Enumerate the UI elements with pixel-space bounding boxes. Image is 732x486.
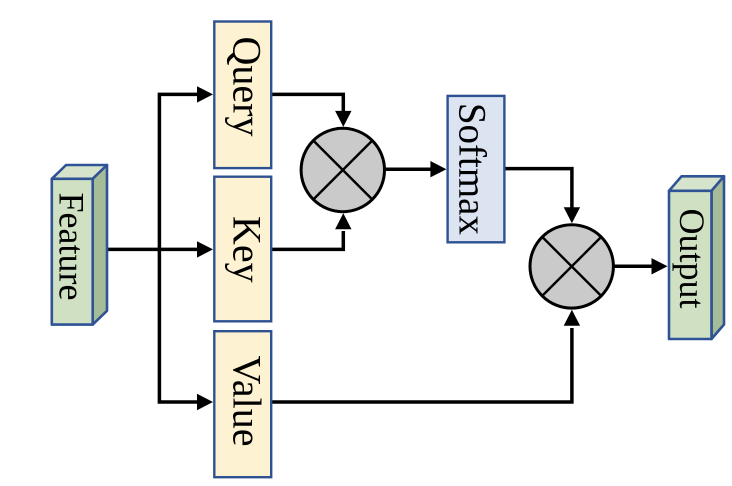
Query box	[214, 22, 271, 169]
multiply node 2	[530, 225, 613, 308]
wire: multiply node 2 to Output	[612, 265, 653, 269]
arrowhead into multiply node 2 top	[564, 207, 580, 223]
arrowhead into Softmax	[430, 161, 446, 177]
wire: multiply node 1 to Softmax	[384, 167, 432, 171]
svg-text:Value: Value	[225, 355, 270, 446]
arrowhead into multiply node 2 bottom	[564, 310, 580, 326]
Softmax box	[448, 96, 505, 242]
arrowhead into Output	[652, 258, 668, 274]
Value box	[214, 331, 271, 477]
Feature 3D box	[52, 165, 107, 325]
arrowhead into Query	[197, 86, 213, 102]
wire: Feature output to Key	[96, 248, 198, 252]
arrowhead into multiply node 1 bottom	[335, 213, 351, 229]
svg-text:Output: Output	[672, 208, 712, 308]
wire: Key output to multiply node 1 bottom	[271, 231, 344, 249]
wire: Value output to multiply node 2 bottom	[271, 328, 572, 402]
arrowhead into Key	[197, 241, 213, 257]
arrowhead into multiply node 1 top	[335, 111, 351, 127]
wire: Softmax output to multiply node 2 top	[504, 169, 572, 208]
wire: Query output to multiply node 1 top	[271, 94, 344, 112]
Key box	[214, 177, 271, 322]
svg-text:Softmax: Softmax	[451, 103, 494, 236]
Output 3D box	[669, 176, 724, 339]
wire: branch trunk to Query and Value	[159, 94, 198, 402]
svg-text:Key: Key	[225, 216, 270, 283]
arrowhead into Value	[197, 394, 213, 410]
svg-text:Query: Query	[225, 37, 270, 137]
svg-text:Feature: Feature	[52, 193, 92, 301]
multiply node 1	[301, 128, 384, 211]
